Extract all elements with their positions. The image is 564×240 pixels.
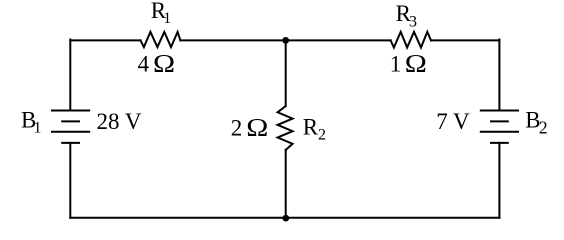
wire: middle branch lower (285, 150, 287, 218)
svg-text:28 V: 28 V (97, 109, 142, 134)
svg-text:2: 2 (231, 115, 243, 140)
label R2 (303, 114, 326, 143)
svg-text:R1: R1 (151, 0, 171, 27)
label B1 (21, 107, 41, 136)
label B2 (525, 108, 547, 138)
value label 4 ohm (138, 49, 175, 77)
battery B1 (52, 111, 89, 143)
wire: top rail left segment (70, 39, 140, 41)
svg-text:1: 1 (390, 51, 402, 76)
resistor R1 (141, 32, 181, 47)
value label 28 V (97, 109, 142, 134)
svg-text:Ω: Ω (153, 49, 175, 77)
wire: top rail right segment (431, 39, 499, 41)
node dot: top junction (282, 37, 289, 44)
svg-text:Ω: Ω (405, 49, 427, 77)
value label 2 ohm (231, 113, 269, 141)
wire: right side upper (498, 40, 500, 111)
svg-text:B2: B2 (525, 108, 547, 138)
svg-text:B1: B1 (21, 107, 41, 136)
svg-text:R3: R3 (396, 1, 417, 30)
node dot: bottom junction (282, 215, 289, 222)
wire: top rail middle segment (180, 39, 390, 41)
value label 7 V (436, 109, 470, 134)
label R1 (151, 0, 171, 27)
wire: middle branch upper (285, 40, 287, 106)
svg-text:7 V: 7 V (436, 109, 470, 134)
wire: left side upper (69, 40, 71, 111)
svg-text:R2: R2 (303, 114, 326, 143)
wire: left side lower (69, 143, 71, 218)
label R3 (396, 1, 417, 30)
value label 1 ohm (390, 49, 427, 77)
wire: right side lower (498, 143, 500, 218)
battery B2 (481, 111, 518, 143)
svg-text:4: 4 (138, 51, 150, 76)
resistor R2 (278, 106, 293, 150)
svg-text:Ω: Ω (246, 113, 268, 141)
resistor R3 (391, 32, 431, 48)
wire: bottom rail (70, 217, 499, 219)
